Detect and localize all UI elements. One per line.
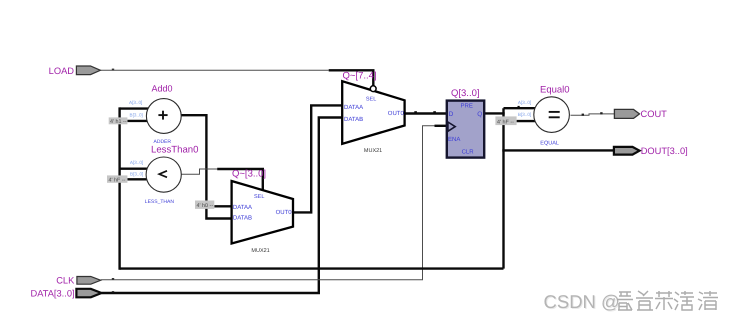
svg-text:4' h0 --: 4' h0 -- bbox=[197, 203, 214, 209]
svg-text:B[3..0]: B[3..0] bbox=[518, 112, 531, 117]
svg-text:B[3..0]: B[3..0] bbox=[130, 112, 143, 117]
svg-text:4' hF --: 4' hF -- bbox=[497, 119, 514, 125]
input pin CLK bbox=[56, 276, 100, 286]
wire bottom mux output Q~[3..0] to top mux DATAA bbox=[293, 105, 342, 212]
svg-text:Q~[7..4]: Q~[7..4] bbox=[343, 71, 377, 82]
wire CLK to register clock bbox=[101, 126, 447, 280]
svg-text:OUT0: OUT0 bbox=[276, 209, 293, 216]
wire register Q output with feedback bus, Equal0 A, DOUT branch bbox=[120, 106, 614, 270]
svg-text:DATAA: DATAA bbox=[233, 204, 252, 211]
svg-text:A[3..0]: A[3..0] bbox=[130, 160, 143, 165]
svg-text:EQUAL: EQUAL bbox=[540, 140, 559, 146]
adder Add0 bbox=[129, 83, 181, 145]
output pin DOUT[3..0] bbox=[614, 146, 688, 156]
svg-text:CSDN @: CSDN @ bbox=[544, 291, 620, 312]
register Q[3..0] bbox=[447, 88, 484, 158]
svg-text:CLK: CLK bbox=[56, 276, 75, 286]
constant 4'hF (Equal0 B input) bbox=[495, 116, 537, 125]
svg-text:Q: Q bbox=[477, 111, 482, 118]
svg-text:Q~[3..0]: Q~[3..0] bbox=[232, 169, 266, 180]
svg-text:DATAB: DATAB bbox=[344, 116, 363, 123]
svg-text:B[3..0]: B[3..0] bbox=[130, 171, 143, 176]
output pin COUT bbox=[614, 109, 667, 119]
svg-text:MUX21: MUX21 bbox=[251, 248, 269, 254]
svg-text:COUT: COUT bbox=[641, 109, 668, 119]
svg-text:LessThan0: LessThan0 bbox=[151, 144, 198, 155]
inverter bubble on top mux SEL bbox=[370, 86, 376, 92]
svg-text:SEL: SEL bbox=[366, 97, 376, 103]
wire LOAD to top mux SEL bbox=[100, 69, 373, 86]
wire Add0 A input (feedback bus branch) bbox=[120, 107, 150, 109]
wire LessThan0 output to bottom mux SEL bbox=[181, 169, 263, 191]
mux MUX21 (bottom, node Q~[3..0]) bbox=[232, 169, 293, 254]
wire LessThan0 A input (feedback bus branch) bbox=[120, 167, 148, 169]
input pin LOAD bbox=[49, 66, 101, 76]
wire Equal0 output to COUT bbox=[571, 112, 615, 116]
svg-text:Add0: Add0 bbox=[152, 83, 173, 93]
svg-text:DATAA: DATAA bbox=[344, 104, 363, 111]
svg-text:A[3..0]: A[3..0] bbox=[518, 100, 531, 105]
watermark CSDN bbox=[544, 291, 620, 312]
svg-text:SEL: SEL bbox=[254, 194, 264, 200]
svg-text:A[3..0]: A[3..0] bbox=[129, 100, 142, 105]
svg-text:4' hF --: 4' hF -- bbox=[109, 177, 126, 183]
svg-text:Equal0: Equal0 bbox=[540, 85, 570, 96]
svg-text:LOAD: LOAD bbox=[49, 66, 75, 76]
watermark CJK glyph blocks bbox=[615, 289, 720, 313]
wire top mux output Q~[7..4] to register D bbox=[405, 111, 447, 113]
svg-text:D: D bbox=[449, 111, 454, 118]
wire Add0 output to bottom mux DATAB bbox=[181, 115, 232, 218]
constant 4'hF (LessThan0 B input) bbox=[107, 175, 151, 183]
svg-text:Q[3..0]: Q[3..0] bbox=[451, 88, 480, 99]
wire DATA bus to top mux DATAB bbox=[102, 118, 343, 294]
svg-text:LESS_THAN: LESS_THAN bbox=[145, 199, 175, 205]
svg-text:DATA[3..0]: DATA[3..0] bbox=[31, 289, 75, 299]
svg-text:PRE: PRE bbox=[461, 102, 473, 109]
svg-text:CLR: CLR bbox=[462, 148, 475, 155]
svg-text:DOUT[3..0]: DOUT[3..0] bbox=[641, 146, 688, 156]
constant 4'h0 (bottom mux DATAA input) bbox=[195, 201, 232, 210]
input pin DATA[3..0] bbox=[31, 289, 102, 299]
svg-text:DATAB: DATAB bbox=[233, 215, 252, 222]
constant 4'h1 (Add0 B input) bbox=[109, 117, 151, 125]
svg-text:4' h1 --: 4' h1 -- bbox=[110, 119, 127, 125]
svg-text:OUT0: OUT0 bbox=[388, 110, 405, 117]
svg-text:ENA: ENA bbox=[448, 136, 460, 143]
equality Equal0 bbox=[518, 85, 570, 147]
comparator LessThan0 bbox=[130, 144, 199, 205]
mux MUX21 (top, node Q~[7..4]) bbox=[342, 71, 404, 155]
svg-text:MUX21: MUX21 bbox=[364, 148, 382, 154]
